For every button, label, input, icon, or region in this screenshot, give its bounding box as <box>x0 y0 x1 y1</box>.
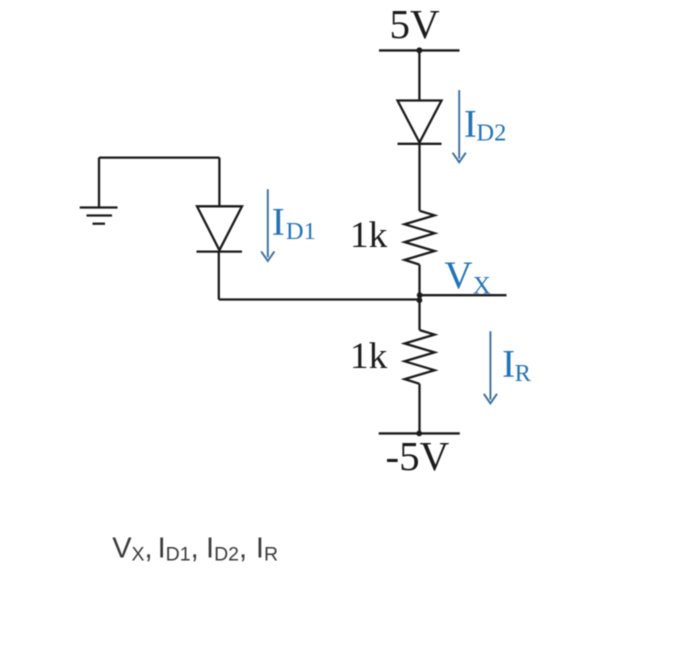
wire top horizontal to ground branch <box>99 156 219 158</box>
wire D1 anode up <box>218 158 220 207</box>
svg-text:R: R <box>515 360 532 387</box>
svg-text:X: X <box>473 273 491 300</box>
svg-text:I: I <box>464 102 477 145</box>
label ID2 <box>464 102 506 146</box>
resistor R2 (lower 1k) <box>405 330 435 384</box>
diode D2 <box>398 101 442 144</box>
wire 5V supply rail <box>379 49 460 51</box>
ground symbol <box>80 208 118 224</box>
resistor R1 (upper 1k) <box>405 211 435 265</box>
wire -5V supply rail <box>379 432 460 434</box>
svg-text:I: I <box>502 342 515 385</box>
current arrow IR <box>484 331 497 403</box>
wire ground stem <box>98 158 100 208</box>
svg-text:D1: D1 <box>286 218 316 245</box>
wire node VX horizontal left to D1 branch <box>219 298 420 300</box>
svg-text:1k: 1k <box>350 336 388 377</box>
svg-text:V: V <box>444 254 472 297</box>
diode D1 <box>197 206 243 251</box>
wire node VX to D1 cathode <box>218 252 220 300</box>
wire R2 bottom to -5V rail <box>418 384 420 434</box>
label IR <box>502 342 531 387</box>
current arrow ID2 <box>453 90 466 162</box>
label ID1 <box>272 200 316 245</box>
wire D2 cathode to R1 top <box>418 144 420 211</box>
junction dot on -5V rail <box>416 431 422 437</box>
svg-text:1k: 1k <box>350 215 388 256</box>
wire 5V rail to D2 anode <box>418 50 420 100</box>
junction dot at node VX (left wire) <box>417 297 423 303</box>
svg-text:-5V: -5V <box>386 433 450 479</box>
svg-text:D2: D2 <box>476 120 506 147</box>
wire node VX horizontal right <box>420 294 507 296</box>
svg-text:5V: 5V <box>390 1 441 47</box>
svg-text:I: I <box>272 200 285 243</box>
label VX <box>444 254 490 300</box>
junction dot at node VX (right wire) <box>417 292 423 298</box>
current arrow ID1 <box>261 189 274 261</box>
junction dot on 5V rail <box>416 47 422 53</box>
wire R1 bottom to node VX <box>418 265 420 296</box>
wire node VX to R2 top <box>418 296 420 330</box>
